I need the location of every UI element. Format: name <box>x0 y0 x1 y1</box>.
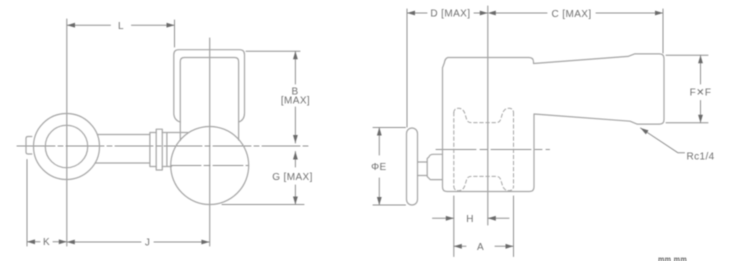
pipe bottom line <box>95 162 150 164</box>
svg-text:D [MAX]: D [MAX] <box>430 9 470 20</box>
body outline <box>443 54 665 192</box>
dimension PhiE <box>373 128 406 206</box>
banjo eye outer circle <box>34 114 100 180</box>
svg-text:G [MAX]: G [MAX] <box>272 172 313 183</box>
knob boss <box>427 154 442 179</box>
centerline vertical small circle <box>66 19 68 246</box>
svg-text:F✕F: F✕F <box>690 88 712 99</box>
leader Rc1/4 <box>641 128 685 153</box>
hidden bore right dashed <box>513 113 515 187</box>
centerline vertical <box>487 6 489 225</box>
hidden bore bottom profile dashed <box>454 176 514 190</box>
svg-text:J: J <box>145 238 150 249</box>
dimension G [MAX] <box>294 152 296 205</box>
svg-text:H: H <box>466 214 474 225</box>
knob disc <box>407 128 418 205</box>
union nut cell 1 <box>150 133 156 167</box>
svg-text:K: K <box>43 237 50 248</box>
bleeder protrusion <box>26 137 32 155</box>
dimension J <box>67 241 210 243</box>
pipe top line <box>98 134 150 136</box>
dimension A <box>454 245 514 247</box>
dimension FxF <box>666 55 708 123</box>
centerline horizontal (pipe axis) <box>17 145 311 147</box>
svg-text:Rc1/4: Rc1/4 <box>687 151 715 162</box>
centerline vertical big circle <box>209 38 211 246</box>
valve body big circle <box>171 127 249 205</box>
svg-text:[MAX]: [MAX] <box>281 96 310 107</box>
hidden bore top profile dashed <box>454 108 514 122</box>
handle outer outline <box>174 50 245 122</box>
svg-text:C [MAX]: C [MAX] <box>551 9 591 20</box>
banjo eye inner circle <box>45 125 87 167</box>
dimension L <box>67 24 175 26</box>
centerline horizontal <box>436 149 550 151</box>
centerline horizontal big circle <box>171 165 249 167</box>
dimension B [MAX] <box>246 50 300 52</box>
svg-text:A: A <box>477 242 484 253</box>
dimension D [MAX] <box>406 9 408 127</box>
union nut cell 3 <box>162 133 188 167</box>
svg-text:ΦE: ΦE <box>371 162 386 173</box>
dimension H <box>454 196 514 257</box>
svg-text:L: L <box>118 21 124 32</box>
handle inner outline left <box>180 58 238 141</box>
dimension K <box>26 160 28 247</box>
hidden bore left dashed <box>453 113 455 187</box>
union nut cell 2 tall <box>156 129 162 170</box>
svg-text:mm mm: mm mm <box>658 255 687 261</box>
knob stem <box>418 162 428 176</box>
dimension C [MAX] <box>492 12 663 14</box>
